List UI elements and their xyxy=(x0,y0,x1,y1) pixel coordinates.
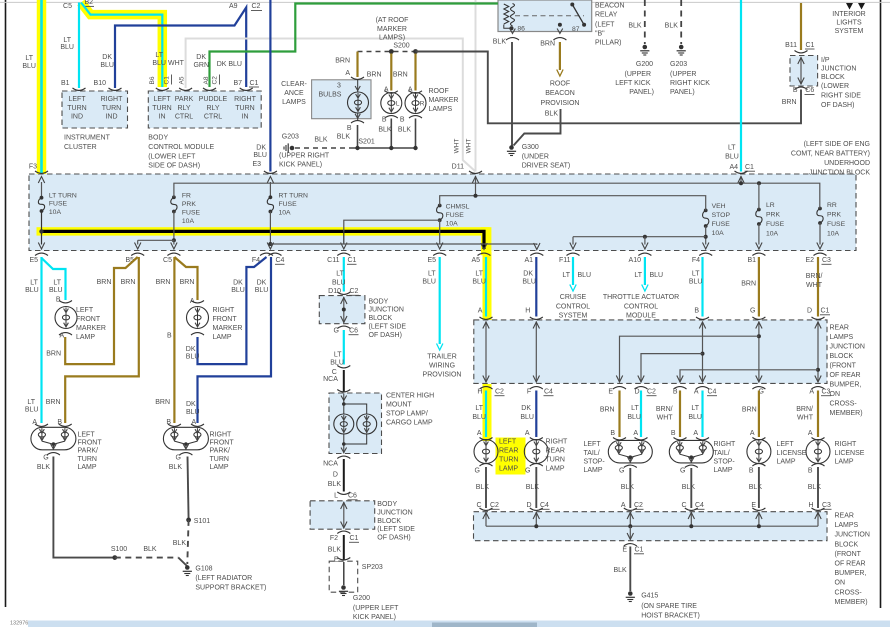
svg-text:WHT: WHT xyxy=(454,139,461,154)
svg-text:D: D xyxy=(634,389,639,396)
lamp: left license lamp xyxy=(747,438,807,475)
svg-text:PRK: PRK xyxy=(766,212,780,219)
svg-text:A9: A9 xyxy=(229,3,238,10)
svg-text:(LOWER: (LOWER xyxy=(821,83,849,90)
svg-text:NCA: NCA xyxy=(323,461,338,468)
clearance lamps box (3 bulbs) xyxy=(281,80,371,119)
svg-text:FUSE: FUSE xyxy=(279,201,298,208)
rear lamps junction block (dashed box) xyxy=(474,320,865,417)
svg-text:LEFT: LEFT xyxy=(76,307,94,314)
svg-text:(UPPER: (UPPER xyxy=(670,71,696,78)
svg-text:BLU: BLU xyxy=(472,414,486,421)
svg-text:STOP-: STOP- xyxy=(584,459,606,466)
svg-text:BRN: BRN xyxy=(335,58,350,65)
svg-text:L: L xyxy=(396,101,400,108)
svg-text:C2: C2 xyxy=(490,502,499,509)
svg-text:LEFT KICK: LEFT KICK xyxy=(615,80,651,87)
fuse: LT TURN FUSE 10A xyxy=(35,171,77,216)
svg-text:BLU: BLU xyxy=(186,354,200,361)
svg-text:CARGO LAMP: CARGO LAMP xyxy=(386,420,433,427)
svg-text:LAMP: LAMP xyxy=(210,464,229,471)
svg-text:G: G xyxy=(43,455,48,462)
svg-text:BLK: BLK xyxy=(665,22,679,29)
rear junction block internal: B to D and A (stop feed) xyxy=(634,322,717,396)
svg-text:A5: A5 xyxy=(179,76,186,84)
svg-text:H: H xyxy=(477,389,482,396)
svg-text:BODY: BODY xyxy=(369,298,389,305)
svg-text:S201: S201 xyxy=(358,139,374,146)
svg-text:G: G xyxy=(176,455,181,462)
svg-text:BLK: BLK xyxy=(173,540,187,547)
svg-text:C1: C1 xyxy=(806,42,815,49)
svg-text:WHT: WHT xyxy=(797,415,814,422)
lamp: clearance lamps bulb xyxy=(337,80,369,140)
svg-text:E3: E3 xyxy=(252,161,261,168)
svg-text:BRN: BRN xyxy=(393,72,408,79)
svg-text:(AT ROOF: (AT ROOF xyxy=(376,17,409,24)
svg-text:C6: C6 xyxy=(348,493,357,500)
svg-text:C1: C1 xyxy=(348,257,357,264)
svg-text:IND: IND xyxy=(71,114,83,121)
svg-text:OF DASH): OF DASH) xyxy=(377,535,410,542)
ground G203 dashed (upper right kick panel) xyxy=(665,0,711,96)
svg-text:BRN/: BRN/ xyxy=(806,273,823,280)
svg-text:BRN: BRN xyxy=(46,351,61,358)
svg-text:(FRONT: (FRONT xyxy=(835,551,862,558)
svg-text:C1: C1 xyxy=(350,535,359,542)
svg-text:BRN/: BRN/ xyxy=(656,406,673,413)
svg-text:BRN: BRN xyxy=(46,399,61,406)
svg-text:RIGHT: RIGHT xyxy=(714,441,737,448)
svg-text:(LEFT RADIATOR: (LEFT RADIATOR xyxy=(195,575,252,582)
junction block: FR PRK outputs to B5/C5 xyxy=(135,212,178,250)
svg-text:SP203: SP203 xyxy=(362,564,383,571)
wire: relay 86 to G300 (BLK) xyxy=(493,39,512,147)
svg-text:GRN: GRN xyxy=(193,62,209,69)
svg-text:FUSE: FUSE xyxy=(49,201,68,208)
svg-text:C4: C4 xyxy=(276,257,285,264)
fuse: LR PRK FUSE 10A xyxy=(756,202,785,238)
svg-text:PANEL): PANEL) xyxy=(670,89,695,96)
svg-text:L: L xyxy=(334,493,338,500)
svg-text:RR: RR xyxy=(827,202,837,209)
svg-text:LT: LT xyxy=(475,271,483,278)
svg-text:BRN: BRN xyxy=(97,279,112,286)
fuse: CHMSL FUSE 10A xyxy=(437,204,470,228)
svg-text:BLU: BLU xyxy=(520,414,534,421)
interior lights system arrows xyxy=(832,3,865,35)
svg-text:A: A xyxy=(621,502,626,509)
svg-text:TURN: TURN xyxy=(78,456,97,463)
junction block: LR PRK output to B1 xyxy=(756,224,762,249)
svg-text:RIGHT SIDE: RIGHT SIDE xyxy=(821,93,861,100)
svg-text:BLK: BLK xyxy=(398,127,412,134)
svg-text:D: D xyxy=(333,472,338,479)
svg-text:(FRONT: (FRONT xyxy=(830,363,857,370)
svg-text:G203: G203 xyxy=(670,61,687,68)
svg-text:BLK: BLK xyxy=(682,484,696,491)
svg-text:LAMP: LAMP xyxy=(78,464,97,471)
svg-text:E5: E5 xyxy=(427,257,436,264)
svg-text:3: 3 xyxy=(337,83,341,90)
svg-text:C1: C1 xyxy=(635,547,644,554)
wire: park lamp feed to A4 (LT BLU) xyxy=(725,0,755,172)
svg-text:LT: LT xyxy=(428,271,436,278)
svg-text:BLK: BLK xyxy=(143,546,157,553)
svg-text:G200: G200 xyxy=(636,61,653,68)
svg-text:LEFT: LEFT xyxy=(153,96,171,103)
svg-text:G415: G415 xyxy=(641,593,658,600)
svg-text:PILLAR): PILLAR) xyxy=(595,40,621,47)
svg-text:LEFT: LEFT xyxy=(499,439,517,446)
svg-text:BLU: BLU xyxy=(25,407,39,414)
svg-text:BLK: BLK xyxy=(621,484,635,491)
svg-text:CENTER HIGH: CENTER HIGH xyxy=(386,393,434,400)
svg-text:CLEAR-: CLEAR- xyxy=(281,81,307,88)
svg-text:STOP: STOP xyxy=(712,212,731,219)
svg-text:BLU: BLU xyxy=(332,280,346,287)
svg-text:B: B xyxy=(382,117,387,124)
wire: F11 to cruise control system (LT BLU) xyxy=(556,257,591,320)
svg-text:BLU: BLU xyxy=(152,60,166,67)
svg-text:LEFT: LEFT xyxy=(68,96,86,103)
svg-text:DK: DK xyxy=(102,54,112,61)
svg-text:BRN: BRN xyxy=(741,281,756,288)
svg-text:TURN: TURN xyxy=(235,105,254,112)
svg-text:C2: C2 xyxy=(252,3,261,10)
svg-text:BLK: BLK xyxy=(378,127,392,134)
svg-text:B: B xyxy=(610,430,615,437)
svg-text:CROSS-: CROSS- xyxy=(835,589,863,596)
wire: C5 to right front marker lamp A (BRN) xyxy=(174,257,197,305)
wire: C5 to right front park/turn lamp B (BRN) xyxy=(155,257,174,426)
junction block: CHMSL outputs to C11 and E5 xyxy=(344,220,443,249)
lamp: right rear turn lamp xyxy=(524,438,568,475)
svg-text:C4: C4 xyxy=(544,388,553,395)
svg-text:C1: C1 xyxy=(745,164,754,171)
svg-text:LAMP: LAMP xyxy=(499,466,518,473)
I/P junction block (dashed box) xyxy=(790,56,861,110)
svg-text:BLK: BLK xyxy=(628,22,642,29)
rear junction block internal: A to H/C2 (highlighted circuit) xyxy=(477,322,504,396)
svg-text:F4: F4 xyxy=(692,257,700,264)
svg-text:LAMP: LAMP xyxy=(546,466,565,473)
svg-text:BLU: BLU xyxy=(422,279,436,286)
svg-text:IN: IN xyxy=(159,114,166,121)
wire: E2 to rear junction block D (BRN/WHT) xyxy=(806,257,830,319)
svg-text:BRN: BRN xyxy=(540,41,555,48)
svg-text:LT: LT xyxy=(53,280,61,287)
svg-text:RIGHT KICK: RIGHT KICK xyxy=(670,80,710,87)
junction block rail: stop fuses feed (D11) xyxy=(440,164,706,211)
svg-text:(UPPER RIGHT: (UPPER RIGHT xyxy=(279,153,330,160)
svg-text:TURN: TURN xyxy=(546,457,565,464)
svg-text:LT: LT xyxy=(728,145,736,152)
svg-text:WHT: WHT xyxy=(806,282,823,289)
svg-text:MARKER: MARKER xyxy=(76,325,106,332)
svg-text:A: A xyxy=(478,308,483,315)
lamp: left front park/turn lamp xyxy=(31,424,102,471)
svg-text:BRN: BRN xyxy=(782,99,797,106)
svg-text:A: A xyxy=(693,430,698,437)
svg-text:LEFT: LEFT xyxy=(78,431,96,438)
svg-text:CROSS-: CROSS- xyxy=(830,401,858,408)
splice S200 and dashed wire xyxy=(358,17,418,54)
wire: interior lights to I/P junction block B11 (BRN) xyxy=(785,3,814,53)
svg-text:BLU: BLU xyxy=(689,279,703,286)
svg-text:A1: A1 xyxy=(524,257,533,264)
wire: S200 to clearance bulbs (BRN) xyxy=(335,52,364,80)
wire: C11 to body junction block D10 (LT BLU) xyxy=(328,257,359,295)
svg-text:LAMPS: LAMPS xyxy=(835,522,859,529)
svg-text:LT: LT xyxy=(334,352,342,359)
svg-text:G: G xyxy=(334,328,339,335)
wire: C5 to instrument cluster B1 (LT BLU) xyxy=(60,0,94,90)
svg-text:(UNDER: (UNDER xyxy=(522,153,549,160)
svg-text:BLU: BLU xyxy=(725,154,739,161)
svg-text:FUSE: FUSE xyxy=(446,212,465,219)
svg-text:SUPPORT BRACKET): SUPPORT BRACKET) xyxy=(195,585,266,592)
highlight: left turn signal circuit (yellow) xyxy=(37,0,526,475)
svg-text:D: D xyxy=(807,308,812,315)
svg-text:LAMP: LAMP xyxy=(584,467,603,474)
svg-text:FRONT: FRONT xyxy=(213,316,238,323)
wire: S101 to G108 dashed (BLK) xyxy=(187,520,188,564)
junction block: RR PRK output to E2 xyxy=(817,223,823,249)
svg-text:PRK: PRK xyxy=(827,212,841,219)
svg-text:B1: B1 xyxy=(61,80,70,87)
svg-text:DK: DK xyxy=(256,145,266,152)
svg-text:BLU: BLU xyxy=(522,279,536,286)
svg-text:BUMPER,: BUMPER, xyxy=(830,382,862,389)
svg-text:86: 86 xyxy=(517,26,525,33)
svg-text:(LEFT: (LEFT xyxy=(595,21,615,28)
wire: E5 to left front park/turn lamp A (LT BLU) xyxy=(25,257,42,426)
svg-text:BLK: BLK xyxy=(314,137,328,144)
svg-text:BEACON: BEACON xyxy=(595,2,625,9)
wire: left rear turn ground (BLK) xyxy=(476,467,500,510)
svg-text:BLU: BLU xyxy=(60,44,74,51)
wire: left tail/stop ground (BLK) xyxy=(621,468,644,510)
svg-text:DK: DK xyxy=(186,346,196,353)
svg-text:BLU: BLU xyxy=(186,409,200,416)
svg-text:DRIVER SEAT): DRIVER SEAT) xyxy=(522,163,571,170)
lamp: left tail/stop lamp xyxy=(584,438,653,475)
wire: CHMSL lamp to body junction block L (BLK) xyxy=(323,456,357,500)
svg-text:UNDERHOOD: UNDERHOOD xyxy=(824,160,870,167)
svg-text:CONTROL: CONTROL xyxy=(556,303,590,310)
svg-text:RLY: RLY xyxy=(206,105,219,112)
svg-text:B6: B6 xyxy=(149,76,156,84)
svg-text:SIDE OF DASH): SIDE OF DASH) xyxy=(148,162,200,169)
svg-text:B10: B10 xyxy=(94,80,107,87)
svg-text:(LEFT SIDE: (LEFT SIDE xyxy=(377,526,415,533)
wire: roof beacon provision ground (BLK) xyxy=(514,109,561,146)
svg-text:DK: DK xyxy=(186,401,196,408)
wire: F4 to rear junction block B (LT BLU) xyxy=(689,257,709,319)
svg-text:D10: D10 xyxy=(328,288,341,295)
wire: relay 87 roof beacon provision (BRN) xyxy=(540,41,579,107)
svg-text:BLK: BLK xyxy=(545,111,559,118)
svg-text:TURN: TURN xyxy=(499,457,518,464)
wire: rear block H/C2 to left rear turn lamp (LT BLU highlighted) xyxy=(472,391,486,438)
svg-text:A: A xyxy=(694,389,699,396)
fuse: FR PRK FUSE 10A xyxy=(171,193,201,226)
relay K1 beacon relay (box) xyxy=(498,0,625,47)
svg-text:LT: LT xyxy=(562,272,570,279)
rear junction block internal: G to G and E (park feed) xyxy=(608,322,765,396)
svg-text:RIGHT: RIGHT xyxy=(210,431,233,438)
svg-text:BLK: BLK xyxy=(749,484,763,491)
svg-text:MOUNT: MOUNT xyxy=(386,402,412,409)
body junction block 1 internal wire xyxy=(334,297,359,335)
svg-text:ROOF: ROOF xyxy=(550,80,570,87)
svg-text:DK: DK xyxy=(257,280,267,287)
body junction block 1 (dashed box) xyxy=(319,296,406,339)
svg-text:PUDDLE: PUDDLE xyxy=(199,96,228,103)
svg-text:REAR: REAR xyxy=(546,448,565,455)
wire: E5 to trailer wiring provision (LT BLU) xyxy=(422,257,461,378)
svg-text:LAMP: LAMP xyxy=(213,334,232,341)
svg-text:TURN: TURN xyxy=(152,105,171,112)
svg-text:10A: 10A xyxy=(827,231,840,238)
svg-text:FRONT: FRONT xyxy=(76,316,101,323)
svg-text:C1: C1 xyxy=(250,80,259,87)
svg-text:CONTROL: CONTROL xyxy=(624,303,658,310)
svg-text:RT TURN: RT TURN xyxy=(279,193,309,200)
svg-text:BRN: BRN xyxy=(180,279,195,286)
ground G203 left (upper right kick panel) xyxy=(279,133,330,168)
svg-text:A4: A4 xyxy=(729,164,738,171)
svg-text:(ON SPARE TIRE: (ON SPARE TIRE xyxy=(641,603,697,610)
svg-text:MODULE: MODULE xyxy=(626,313,656,320)
svg-text:WHT: WHT xyxy=(466,139,473,154)
svg-text:PARK/: PARK/ xyxy=(78,448,99,455)
svg-text:LT: LT xyxy=(30,280,38,287)
svg-text:C: C xyxy=(476,502,481,509)
svg-text:F3: F3 xyxy=(29,164,37,171)
bus: left turn fuse output (highlighted) xyxy=(38,211,487,250)
svg-text:FUSE: FUSE xyxy=(712,221,731,228)
wire: rear block E to left tail/stop lamp B (BRN) xyxy=(600,391,620,438)
svg-text:BRN: BRN xyxy=(121,279,136,286)
svg-text:D: D xyxy=(526,502,531,509)
svg-text:C2: C2 xyxy=(495,388,504,395)
svg-text:G200: G200 xyxy=(353,595,370,602)
svg-text:BLU: BLU xyxy=(650,272,664,279)
svg-text:PROVISION: PROVISION xyxy=(541,100,580,107)
svg-text:REAR: REAR xyxy=(835,513,854,520)
svg-text:LT: LT xyxy=(155,52,163,59)
svg-text:(UPPER LEFT: (UPPER LEFT xyxy=(353,605,399,612)
svg-text:(LEFT SIDE OF ENG: (LEFT SIDE OF ENG xyxy=(804,141,870,148)
svg-text:G: G xyxy=(525,468,530,475)
svg-text:OF REAR: OF REAR xyxy=(835,561,866,568)
fuse: RR PRK FUSE 10A xyxy=(817,202,846,238)
svg-text:C2: C2 xyxy=(212,76,219,85)
lamp: left rear turn lamp (highlighted) xyxy=(474,438,518,475)
svg-text:LICENSE: LICENSE xyxy=(835,450,865,457)
rear junction block lower internal ground bus xyxy=(483,512,821,554)
svg-text:B: B xyxy=(671,430,676,437)
svg-text:STOP LAMP/: STOP LAMP/ xyxy=(386,411,428,418)
svg-text:S100: S100 xyxy=(111,546,127,553)
ground G200 dashed (upper left kick panel) xyxy=(615,0,654,96)
svg-text:RIGHT: RIGHT xyxy=(234,96,257,103)
svg-text:10A: 10A xyxy=(49,209,62,216)
labels: BCM pin ids rotated xyxy=(149,75,220,85)
svg-text:I/P: I/P xyxy=(821,57,830,64)
svg-text:IN: IN xyxy=(242,114,249,121)
svg-text:CRUISE: CRUISE xyxy=(560,294,587,301)
splice SP203 to ground G200 xyxy=(339,562,399,621)
wire: right license ground (BLK) xyxy=(808,467,832,510)
wire: A10 to throttle actuator control module (LT BLU) xyxy=(603,257,679,320)
fuse: VEH STOP FUSE 10A xyxy=(703,203,731,237)
wire: NCA to center high mount stop lamp xyxy=(323,370,350,393)
svg-text:JUNCTION BLOCK: JUNCTION BLOCK xyxy=(809,169,870,176)
svg-text:C4: C4 xyxy=(708,388,717,395)
svg-text:E: E xyxy=(608,389,613,396)
splice pack SP203 (dashed box) xyxy=(329,561,383,592)
svg-text:BLU: BLU xyxy=(627,414,641,421)
svg-text:G108: G108 xyxy=(195,566,212,573)
wire: right tail/stop ground (BLK) xyxy=(681,468,704,510)
svg-text:LT: LT xyxy=(691,405,699,412)
svg-text:PARK/: PARK/ xyxy=(210,448,231,455)
svg-text:CTRL: CTRL xyxy=(204,114,222,121)
svg-text:BLU: BLU xyxy=(688,414,702,421)
svg-text:DK: DK xyxy=(233,280,243,287)
svg-text:PARK: PARK xyxy=(175,96,194,103)
svg-text:RLY: RLY xyxy=(177,105,190,112)
svg-text:OF DASH): OF DASH) xyxy=(369,332,402,339)
svg-text:G203: G203 xyxy=(282,133,299,140)
junction block: RT TURN outputs to F4/A1 xyxy=(267,212,540,250)
svg-text:LAMPS: LAMPS xyxy=(282,99,306,106)
svg-text:BRN: BRN xyxy=(155,399,170,406)
svg-text:87: 87 xyxy=(572,26,580,33)
svg-text:C11: C11 xyxy=(327,257,339,264)
svg-text:RIGHT: RIGHT xyxy=(835,441,858,448)
center high mount stop lamp internals xyxy=(334,394,377,454)
svg-text:BLK: BLK xyxy=(328,481,342,488)
svg-text:BLK: BLK xyxy=(808,484,822,491)
svg-text:LT: LT xyxy=(25,55,33,62)
rear junction block internal: D to A/C3 and B xyxy=(673,322,831,396)
svg-text:B: B xyxy=(673,389,678,396)
svg-text:BLOCK: BLOCK xyxy=(377,518,401,525)
svg-text:CHMSL: CHMSL xyxy=(446,204,470,211)
svg-text:TRAILER: TRAILER xyxy=(427,354,457,361)
wire: rear block A/C3 to right license lamp (BRN/WHT) xyxy=(796,391,818,438)
svg-text:BLU: BLU xyxy=(25,287,39,294)
lamp: right front park/turn lamp xyxy=(163,424,234,471)
wire: instrument cluster B10 to BCM B7 (DK BLU) xyxy=(94,3,262,90)
svg-text:10A: 10A xyxy=(279,210,292,217)
wire: S100 to G108 dashed (BLK) xyxy=(115,558,187,566)
svg-text:R: R xyxy=(420,101,425,108)
svg-text:G: G xyxy=(680,468,685,475)
svg-text:F2: F2 xyxy=(330,535,338,542)
svg-text:BLU: BLU xyxy=(253,152,267,159)
instrument cluster (dashed box) xyxy=(62,91,128,151)
body control module (dashed box) xyxy=(148,91,261,169)
svg-text:FR: FR xyxy=(182,193,191,200)
svg-text:PROVISION: PROVISION xyxy=(423,371,462,378)
svg-text:RELAY: RELAY xyxy=(595,12,618,19)
svg-text:C3: C3 xyxy=(822,388,831,395)
